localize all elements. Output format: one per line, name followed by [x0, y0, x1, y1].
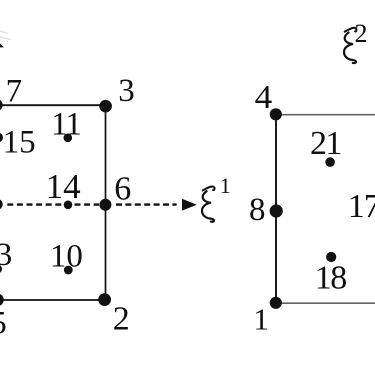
svg-text:10: 10	[50, 239, 83, 275]
svg-text:3: 3	[118, 73, 135, 109]
svg-text:17: 17	[348, 188, 375, 225]
node 6	[99, 199, 111, 211]
node 15 dot (cropped)	[0, 133, 3, 143]
svg-text:18: 18	[315, 260, 347, 297]
wire right element top	[276, 114, 375, 116]
xi2 axis arrowhead (left element, cropped)	[0, 41, 4, 48]
node 3	[99, 100, 112, 113]
xi1 axis dashed arrow	[7, 203, 99, 205]
node 18 dot	[326, 252, 336, 262]
svg-text:2: 2	[113, 301, 130, 338]
node 1	[270, 297, 282, 309]
svg-text:1: 1	[253, 302, 269, 337]
node 14 dot	[64, 201, 73, 210]
svg-text:7: 7	[6, 74, 23, 110]
node 13 dot (cropped)	[0, 265, 2, 274]
wire right element bottom	[276, 302, 375, 304]
wire right element vertical	[275, 114, 277, 303]
svg-text:11: 11	[51, 107, 81, 143]
node 5 (cropped)	[0, 294, 4, 307]
node 2	[98, 293, 111, 306]
svg-text:14: 14	[46, 167, 81, 206]
node 7 (cropped)	[0, 99, 3, 111]
svg-text:6: 6	[114, 171, 131, 208]
node 21 dot	[325, 157, 335, 167]
label xi1	[202, 186, 215, 221]
svg-text:4: 4	[255, 79, 273, 116]
svg-text:15: 15	[3, 125, 36, 161]
node 10 dot	[64, 266, 73, 275]
node 8	[270, 204, 283, 217]
node 4	[270, 108, 282, 120]
node 11 dot	[64, 134, 73, 143]
wire top edge left element	[0, 104, 106, 106]
svg-text:5: 5	[0, 306, 7, 342]
wire right edge left element	[105, 105, 107, 300]
label xi2	[344, 28, 357, 63]
node mid-left (cropped)	[0, 199, 3, 210]
svg-text:2: 2	[355, 19, 368, 48]
svg-text:13: 13	[0, 237, 12, 273]
svg-text:8: 8	[249, 192, 266, 228]
svg-text:21: 21	[310, 125, 341, 162]
wire bottom edge left element	[0, 299, 105, 301]
svg-text:1: 1	[220, 173, 231, 198]
ghost strokes top-left	[0, 31, 11, 40]
